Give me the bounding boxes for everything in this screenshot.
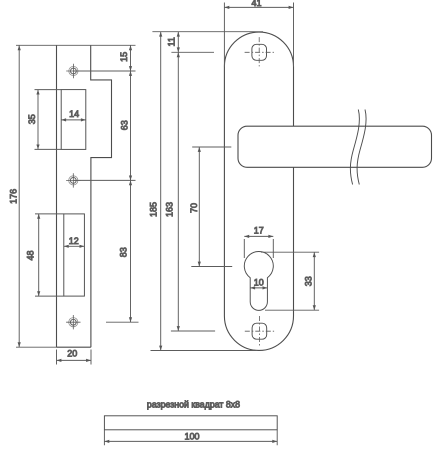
svg-text:83: 83 bbox=[119, 247, 129, 257]
svg-text:20: 20 bbox=[67, 349, 77, 359]
handle plate outline bbox=[224, 32, 293, 350]
dimension 10 bbox=[250, 277, 267, 289]
svg-text:100: 100 bbox=[184, 432, 199, 442]
svg-text:12: 12 bbox=[69, 236, 79, 246]
strike plate bottom extension line bbox=[16, 346, 57, 348]
extension line bottom hole center bbox=[171, 330, 215, 332]
bottom extension line (plate bottom) bbox=[151, 350, 257, 352]
keyhole (cylinder) bbox=[244, 252, 273, 311]
spindle extension lines bbox=[104, 430, 277, 445]
extension line cylinder center bbox=[191, 266, 232, 268]
screw hole H2 bbox=[66, 173, 80, 187]
svg-text:176: 176 bbox=[9, 189, 19, 204]
dimension 70 bbox=[189, 147, 201, 267]
cutout K1 extension lines bbox=[35, 90, 62, 150]
svg-text:10: 10 bbox=[254, 277, 264, 287]
cutout K2 extension lines bbox=[35, 214, 64, 296]
break line 1 bbox=[350, 110, 359, 185]
svg-text:разрезной квадрат 8х8: разрезной квадрат 8х8 bbox=[147, 399, 240, 409]
svg-text:163: 163 bbox=[165, 202, 175, 217]
extension line hole H2 bbox=[73, 179, 135, 181]
svg-text:15: 15 bbox=[119, 52, 129, 62]
break line 2 bbox=[357, 110, 366, 185]
dimension 63 bbox=[119, 71, 132, 180]
dimension 14 bbox=[61, 109, 86, 122]
cutout K1 (14x35) bbox=[61, 90, 86, 150]
dimension 17 bbox=[244, 225, 273, 258]
dimension 15 bbox=[119, 45, 132, 71]
svg-text:35: 35 bbox=[27, 114, 37, 124]
dimension 20 bbox=[57, 349, 92, 365]
dimension 11 bbox=[167, 32, 180, 53]
dimension 33 bbox=[261, 252, 319, 310]
dimension 185 bbox=[149, 32, 163, 351]
handle lever bbox=[238, 126, 432, 167]
extension line hole H3 bbox=[106, 321, 139, 323]
dimension 163 bbox=[165, 52, 180, 331]
cutout K2 (12x48) bbox=[64, 214, 85, 296]
dimension 41 bbox=[224, 0, 293, 67]
dimension 100 bbox=[104, 432, 277, 444]
svg-text:185: 185 bbox=[149, 202, 159, 217]
dimension 83 bbox=[119, 180, 132, 322]
top extension line (plate top) bbox=[152, 31, 263, 33]
svg-text:14: 14 bbox=[69, 109, 79, 119]
spindle bar bbox=[104, 416, 277, 430]
plate screw hole P1 bbox=[245, 37, 274, 66]
svg-text:70: 70 bbox=[189, 203, 199, 213]
extension line hole H1 bbox=[73, 70, 135, 72]
plate screw hole P2 bbox=[245, 316, 274, 347]
svg-text:63: 63 bbox=[119, 120, 129, 130]
dimension 12 bbox=[64, 236, 85, 248]
svg-text:17: 17 bbox=[254, 225, 264, 235]
svg-text:11: 11 bbox=[167, 37, 177, 46]
extension line handle center bbox=[192, 146, 231, 148]
dimension 35 bbox=[27, 90, 39, 150]
dimension 48 bbox=[26, 214, 41, 296]
svg-text:48: 48 bbox=[26, 250, 36, 260]
strike plate top edge with extension line bbox=[16, 44, 136, 46]
strike plate outline bbox=[57, 45, 112, 347]
screw hole H1 bbox=[66, 64, 80, 78]
screw hole H3 bbox=[66, 315, 80, 329]
svg-text:33: 33 bbox=[304, 276, 314, 286]
dimension 176 bbox=[9, 45, 21, 347]
extension line top hole center bbox=[171, 51, 214, 53]
svg-text:41: 41 bbox=[251, 0, 261, 8]
